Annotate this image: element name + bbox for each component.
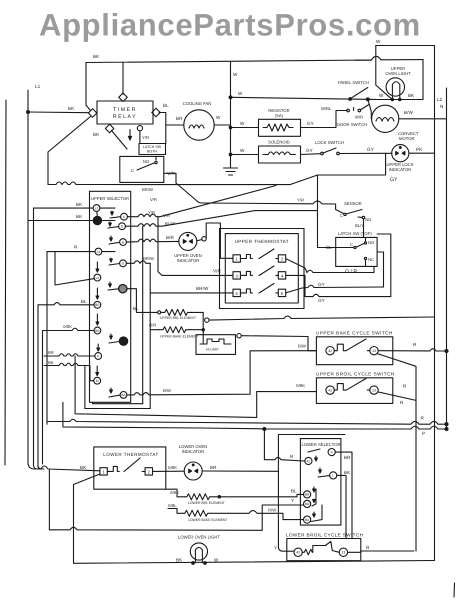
svg-text:L1: L1 [95,206,99,210]
wire BL/W from D contact [125,211,317,227]
svg-text:13: 13 [372,388,376,392]
svg-text:C: C [131,168,134,173]
upper thermostat terminal 6 [278,289,285,296]
wire BK to junction filled [28,220,93,222]
upper selector contact M [94,366,101,384]
wire left border [5,100,6,465]
svg-text:BO: BO [305,502,310,506]
svg-text:LOWER BRL ELEMENT: LOWER BRL ELEMENT [188,501,225,505]
svg-text:6: 6 [281,291,284,296]
svg-text:R: R [400,400,404,405]
svg-text:GY: GY [367,147,374,152]
svg-text:BA: BA [121,393,126,397]
svg-text:(5A): (5A) [275,113,284,118]
ground [224,168,238,175]
node L1 bus [27,90,44,469]
wire BR/W to thermostat 5 [150,292,233,294]
svg-text:NO: NO [368,240,375,245]
wire BL into latch top [318,247,354,249]
svg-text:W/BL: W/BL [321,106,332,111]
wire O/R vertical mid [150,263,159,408]
wire timer relay bottom diagonal [112,130,132,150]
wire broil element to right bus [209,316,435,320]
wire element junction vertical [202,312,204,344]
lower selector contact BR [304,487,316,498]
wire R from L2 contact [47,252,95,425]
svg-text:B/W: B/W [298,344,306,349]
wire Y/R vertical mid [142,226,144,404]
svg-text:W: W [379,93,384,98]
wire Y/R to latch box [139,131,141,144]
upper thermostat outer box [220,229,305,309]
node W vertical with ground [229,62,232,168]
svg-text:UPPER THERMOSTAT: UPPER THERMOSTAT [235,239,289,244]
svg-text:BL: BL [81,299,87,304]
svg-text:SENSOR: SENSOR [344,201,362,206]
wire V/R latch out [164,173,176,183]
resistor 5A box [259,119,301,136]
upper oven indicator [179,232,206,250]
wire P contact to right [335,452,352,538]
wire GY to thermostat 4 [286,234,391,297]
svg-text:W: W [240,121,245,126]
svg-text:Y/R: Y/R [142,135,149,140]
wire timer relay to latch sw [159,113,166,144]
svg-text:42: 42 [328,388,332,392]
svg-text:AppliancePartsPros.com: AppliancePartsPros.com [39,8,421,43]
svg-text:R: R [290,454,294,459]
svg-text:BOTH: BOTH [147,150,157,154]
wire BK from L1 to timer relay [28,111,89,114]
node L1 label [35,84,41,89]
upper bake cycle switch [316,337,392,365]
svg-text:B/W: B/W [163,388,171,393]
upper selector contact B [109,236,126,246]
upper selector contact P [95,344,102,359]
wire fan to resistor [229,126,258,129]
upper thermostat terminal 3 [233,272,240,279]
door switch [336,105,369,112]
svg-text:2: 2 [148,470,151,475]
upper selector box [90,191,131,402]
svg-text:BR: BR [305,493,310,497]
wire W to panel switch and upper light [231,97,376,99]
svg-text:BK: BK [176,558,183,563]
watermark [39,8,421,43]
wire long horizontal to lower selector 42 [63,402,448,461]
svg-text:BL: BL [291,489,297,494]
svg-text:PANEL SWITCH: PANEL SWITCH [338,80,369,85]
wire fan right to W node [214,124,230,126]
svg-text:BR: BR [95,303,100,307]
svg-text:UPPER BRL ELEMENT: UPPER BRL ELEMENT [160,316,196,320]
svg-text:O/R: O/R [149,323,156,328]
svg-text:R/W: R/W [268,508,276,513]
svg-text:P: P [422,431,425,436]
wire L3 diagonal [55,252,94,285]
svg-text:OVEN LIGHT: OVEN LIGHT [385,71,411,76]
node L2 bus right [446,88,448,430]
svg-text:R: R [74,245,78,250]
upper selector contact BR [94,288,101,308]
upper selector contact junction filled [93,216,115,224]
lower broil element [185,494,304,500]
svg-text:W: W [376,39,381,44]
svg-text:LOWER BAKE ELEMENT: LOWER BAKE ELEMENT [188,518,227,522]
svg-text:3: 3 [236,274,239,279]
wire curvy selector top [48,175,318,185]
svg-text:BK: BK [68,106,75,111]
svg-text:UPPER SELECTOR: UPPER SELECTOR [91,196,129,201]
upper thermostat switch 5-6 [240,284,278,294]
upper broil element [158,309,209,322]
upper thermostat switch 3-4 [240,266,278,276]
svg-text:B/R: B/R [166,235,175,240]
svg-text:L: L [332,474,334,478]
svg-text:BK: BK [93,54,100,59]
svg-text:BK: BK [48,360,54,365]
svg-text:NC: NC [368,257,374,262]
svg-text:L2: L2 [96,276,100,280]
svg-text:N: N [440,104,443,109]
cooling fan motor [184,110,214,140]
svg-text:P: P [97,354,99,358]
node N bus right [434,46,436,561]
svg-text:BL: BL [163,103,169,108]
upper selector contact L1 [93,205,115,216]
svg-text:R: R [366,545,370,550]
svg-text:0/BK: 0/BK [296,383,305,388]
wire sensor NO to latch top [363,219,365,237]
svg-text:LOWER SELECTOR: LOWER SELECTOR [301,442,340,447]
svg-text:B/W: B/W [404,110,414,115]
svg-text:BL/W: BL/W [165,221,175,226]
upper selector contact BA [109,388,127,398]
svg-text:BK: BK [344,470,351,475]
svg-text:W: W [233,72,238,77]
svg-text:42: 42 [328,349,332,353]
wire V/R latch to sensor [176,183,344,214]
wire BK to L1 contact [34,207,94,209]
wire timer relay diagonal to selector [48,117,91,185]
wire BK to lower thermostat [38,466,100,530]
svg-text:BK: BK [76,202,83,207]
lower thermostat switch [107,458,145,472]
lower broil cycle switch [287,539,361,561]
svg-text:13: 13 [372,349,376,353]
wire bake 13 diagonal down [377,354,416,552]
upper selector contact K [110,211,127,220]
wire GY to thermostat 6 [286,252,384,293]
svg-text:0/BL: 0/BL [168,503,177,508]
wire GY down from lock switch [318,153,386,247]
svg-text:GY: GY [307,121,314,126]
upper bake element [159,327,203,333]
svg-text:GY: GY [306,148,313,153]
lower selector contact BO [304,489,317,508]
wire BK top [86,60,372,110]
wire hatched contact down [127,289,158,313]
timer relay terminal left diamond [88,109,96,117]
timer relay terminal right diamond [152,108,160,116]
svg-text:Y: Y [274,546,277,551]
upper oven light bulb [367,78,405,101]
upper selector contact filled2 [109,334,128,345]
svg-text:DOOR SWITCH: DOOR SWITCH [337,122,367,127]
svg-text:LOWER OVEN LIGHT: LOWER OVEN LIGHT [178,535,220,540]
svg-text:V/R: V/R [163,213,170,218]
svg-text:LATCH SW (TOP): LATCH SW (TOP) [338,231,372,236]
wire B/W BA to broil switch [127,351,316,395]
svg-text:LATCH SW: LATCH SW [143,145,162,149]
wire O/BL to lower bake element [168,509,183,514]
wire solenoid to lock switch [301,153,321,156]
svg-text:TIMER: TIMER [113,107,137,113]
lower thermostat terminal 2 [145,468,152,475]
wire hi limit to bake cycle switch [241,336,316,351]
sensor switch [344,210,365,219]
lower oven indicator [184,462,202,480]
timer relay [97,101,153,124]
svg-text:BR: BR [95,329,100,333]
svg-text:W: W [238,91,243,96]
svg-text:HI LIMIT: HI LIMIT [206,348,219,352]
wire long horizontal R [47,419,448,425]
svg-text:GY: GY [390,177,398,183]
wire O/BK from BR2 contact [43,328,95,464]
svg-text:GY: GY [318,298,325,303]
upper selector contact G [109,258,126,267]
svg-text:BR/W: BR/W [196,286,209,291]
svg-text:L2: L2 [97,250,101,254]
lock switch [321,148,340,155]
upper thermostat terminal 4 [278,272,285,279]
svg-text:G: G [122,262,125,266]
svg-text:BR: BR [176,116,183,121]
wire BR to P contact [44,354,95,356]
svg-text:MOTOR: MOTOR [399,136,415,141]
wire right vertical small mark [453,583,456,597]
svg-text:INDICATOR: INDICATOR [389,167,412,172]
wire BK to M contact [44,363,94,380]
svg-text:42: 42 [296,551,300,555]
latch switch contact box [120,156,164,182]
lower thermostat terminal 1 [100,468,107,475]
upper selector contact D [108,222,125,230]
wire bake 13 to L2 bus [378,349,448,353]
lower selector contact L [318,468,337,479]
wire V/R mid vertical2 [158,217,162,276]
convect motor [372,105,399,132]
upper selector contact BR2 [94,314,101,334]
svg-text:42: 42 [307,459,311,463]
wire long horizontal 1 [75,356,316,418]
node bus2 left [34,208,38,469]
svg-text:V/R: V/R [150,197,157,202]
svg-text:P: P [331,450,333,454]
svg-text:Y/R: Y/R [148,210,155,215]
svg-text:R: R [403,384,407,389]
upper thermostat terminal 2 [278,255,285,262]
svg-text:C: C [340,213,343,218]
lower thermostat box [94,447,166,489]
svg-text:BL/Y: BL/Y [355,223,364,228]
svg-text:M: M [96,379,99,383]
wire W to solenoid [229,153,258,156]
svg-text:INDICATOR: INDICATOR [177,258,200,263]
wire resistor to door switch GY [301,111,337,128]
svg-text:BK: BK [93,132,100,137]
svg-text:D: D [121,225,124,229]
svg-text:BR: BR [344,455,351,460]
svg-text:BK: BK [80,465,87,470]
svg-text:BK: BK [76,214,83,219]
wire upper lock motor to N [409,152,435,154]
wire L contact to right [337,475,346,538]
wire lock switch to upper lock motor [339,152,392,154]
wire convect motor to N bus [399,118,447,120]
svg-text:SOLENOID: SOLENOID [268,140,290,145]
wire fan left [166,124,184,126]
wire broil 13 right R [378,392,416,400]
upper selector contact L3 [94,262,101,281]
wire lower thermostat 1 diagonal down [74,474,100,563]
svg-text:LOCK SWITCH: LOCK SWITCH [315,140,344,145]
svg-text:Y: Y [291,498,294,503]
svg-text:BR/W: BR/W [142,187,153,192]
wire W top right [376,45,435,47]
svg-text:W: W [240,148,245,153]
latch sw both box [139,144,166,155]
svg-text:COOLING FAN: COOLING FAN [183,101,212,106]
wire Y/R from K contact [127,186,276,217]
svg-text:L1: L1 [35,84,41,89]
lower bake element [183,510,304,519]
wire bottom [74,561,435,564]
svg-text:W/R: W/R [355,115,363,120]
timer relay terminal bottom diamond [105,124,113,132]
wire long horizontal 2 [84,366,86,409]
svg-text:5: 5 [236,291,239,296]
svg-text:R: R [413,342,417,347]
svg-text:Y/R: Y/R [297,198,304,203]
svg-text:GY: GY [318,282,325,287]
lower oven light bulb [190,543,207,564]
svg-text:INDICATOR: INDICATOR [182,449,205,454]
wire lower enclosure [278,435,345,552]
svg-text:RELAY: RELAY [113,114,137,120]
svg-text:LOWER THERMOSTAT: LOWER THERMOSTAT [103,452,158,457]
timer relay terminal bottom circle [137,126,142,131]
upper thermostat switch 1-2 [240,249,278,259]
svg-text:BA: BA [305,518,310,522]
panel switch [349,88,371,119]
hi limit fuse box [196,334,241,355]
svg-text:BK: BK [408,93,415,98]
wire V/R to thermostat 3 [162,274,233,276]
svg-text:UPPER BAKE CYCLE SWITCH: UPPER BAKE CYCLE SWITCH [316,331,393,336]
upper lock indicator [392,145,409,162]
svg-text:L2: L2 [437,97,443,102]
svg-text:0/BK: 0/BK [63,324,72,329]
wire indicator to thermostat 1 [197,223,233,258]
svg-text:NO: NO [365,217,372,222]
svg-text:W: W [216,115,221,120]
timer relay terminal top diamond [119,62,127,102]
svg-text:NO: NO [143,159,150,164]
svg-text:0/BK: 0/BK [168,465,177,470]
lower selector contact 42 [305,456,318,465]
svg-text:BR/W: BR/W [143,256,154,261]
upper selector contact L2 [95,248,115,255]
lower selector contact P [308,449,335,456]
upper selector contact hatched [108,282,127,293]
svg-text:PK: PK [416,147,423,152]
svg-text:BR: BR [210,465,217,470]
latch sw top box [336,237,377,266]
solenoid box [259,146,301,163]
svg-text:LOWER BROIL CYCLE SWITCH: LOWER BROIL CYCLE SWITCH [286,532,363,537]
svg-text:BR: BR [48,350,54,355]
svg-text:1: 1 [102,470,105,475]
wire O/BK to lower broil element [166,489,185,497]
svg-text:C: C [350,242,353,247]
lower selector box [300,439,341,525]
svg-text:B: B [122,240,124,244]
svg-text:2: 2 [281,257,284,262]
wire R/W to lower selector BA [49,505,303,530]
upper thermostat terminal 5 [233,289,240,296]
wire O/BK lower thermostat to indicator [153,470,185,472]
svg-text:1: 1 [236,257,239,262]
svg-text:4: 4 [281,274,284,279]
svg-text:UPPER BROIL CYCLE SWITCH: UPPER BROIL CYCLE SWITCH [316,372,395,377]
svg-text:13: 13 [342,551,346,555]
wire lower indicator right [202,470,278,472]
wire B/R to indicator [126,239,178,242]
upper thermostat box [225,234,298,303]
wire BL from BR contact [38,303,94,469]
lower selector contact BA [304,505,323,523]
svg-text:K: K [123,215,126,219]
svg-text:0/BK: 0/BK [170,490,179,495]
upper thermostat terminal 1 [233,255,240,262]
svg-text:R: R [421,416,425,421]
wire lower broil 13 to R [348,551,414,552]
svg-text:BL: BL [133,306,139,311]
svg-text:V/R: V/R [213,269,222,274]
upper oven light box [355,46,423,100]
upper broil cycle switch [316,378,392,404]
wire latch top NC to thermostat 2 [286,259,374,273]
svg-text:UPPER BAKE ELEMENT: UPPER BAKE ELEMENT [160,335,199,339]
wire BR/W from G contact [126,261,150,264]
